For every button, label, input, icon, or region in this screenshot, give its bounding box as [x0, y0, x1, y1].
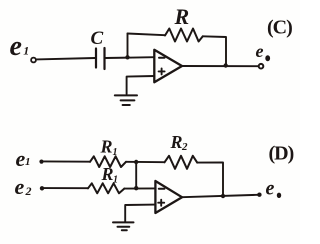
ground (C)	[115, 95, 137, 105]
wire op-amp output to terminal e0 (D)	[182, 195, 258, 197]
svg-text:R: R	[170, 132, 183, 152]
svg-text:R: R	[174, 4, 190, 29]
wire R1 bottom to op-amp inverting input	[124, 187, 155, 189]
svg-text:(C): (C)	[267, 17, 292, 39]
resistor R2	[165, 156, 198, 169]
svg-text:(D): (D)	[269, 143, 294, 165]
svg-text:e: e	[266, 178, 275, 200]
wire R2 to output node	[197, 162, 223, 196]
wire e1 to resistor R1	[44, 160, 91, 162]
wire feedback vertical riser	[127, 34, 129, 58]
svg-text:e: e	[10, 31, 22, 62]
node junction at inverting input	[125, 55, 129, 59]
node e0 output terminal (C)	[259, 64, 264, 69]
node e1 input terminal (C)	[31, 58, 36, 63]
resistor R1 (bottom)	[88, 183, 124, 193]
wire non-inverting input to ground	[127, 76, 155, 94]
svg-text:R: R	[100, 137, 113, 157]
wire op-amp output to terminal e0 (C)	[182, 65, 258, 67]
svg-text:2: 2	[181, 141, 188, 153]
svg-text:e: e	[15, 174, 25, 199]
node feedback/output junction (C)	[224, 63, 228, 67]
svg-text:1: 1	[25, 156, 31, 168]
node feedback/output junction (D)	[221, 194, 225, 198]
svg-text:1: 1	[113, 147, 118, 158]
wire resistor R to output node	[203, 36, 226, 65]
pin minus of U2	[159, 188, 165, 190]
svg-text:1: 1	[23, 44, 29, 58]
node e0 output terminal (D)	[257, 193, 261, 197]
svg-text:C: C	[91, 28, 104, 49]
wire summing node vertical tie	[135, 162, 137, 188]
node summing junction top	[134, 160, 138, 164]
svg-text:1: 1	[113, 175, 118, 186]
resistor R	[165, 29, 203, 42]
node summing junction bottom	[134, 186, 138, 190]
wire input e1 to capacitor C	[36, 58, 95, 59]
svg-text:e: e	[256, 41, 264, 61]
resistor R1 (top)	[90, 156, 126, 167]
capacitor C plates	[96, 48, 105, 69]
svg-text:2: 2	[25, 184, 32, 198]
op-amp U1 (C)	[154, 50, 182, 83]
pin minus of U1	[159, 57, 165, 59]
wire e2 to resistor R1 (bottom)	[44, 187, 88, 189]
node e2 input terminal	[40, 186, 44, 190]
wire non-inverting input to ground (D)	[125, 205, 155, 222]
pin plus of U2	[158, 200, 164, 206]
op-amp U2 (D)	[155, 181, 182, 213]
wire R1 to summing node	[126, 161, 165, 163]
ground (D)	[113, 222, 134, 230]
svg-text:e: e	[16, 146, 26, 171]
wire capacitor to op-amp inverting input	[106, 56, 154, 59]
pin plus of U1	[159, 68, 165, 74]
node e1 input terminal (D)	[39, 160, 43, 164]
svg-text:R: R	[101, 164, 114, 184]
wire feedback top run to resistor R	[128, 34, 166, 36]
